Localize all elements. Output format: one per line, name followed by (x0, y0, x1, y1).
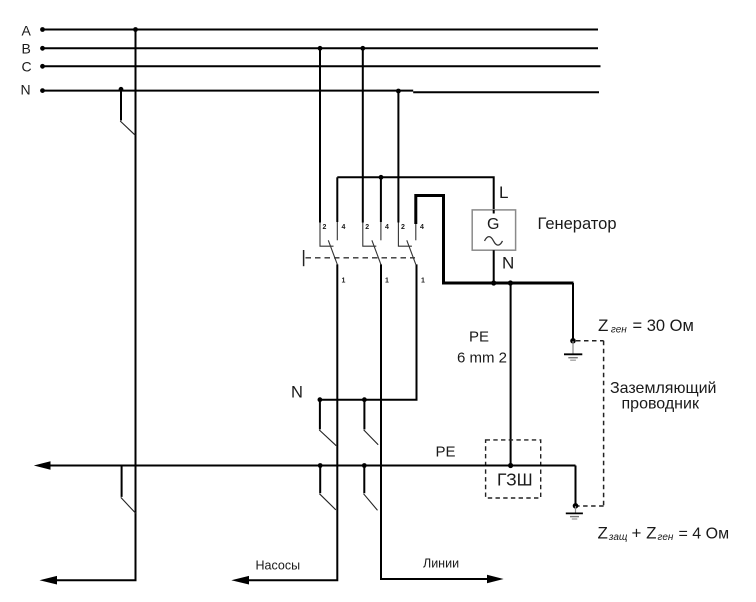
svg-text:N: N (291, 384, 303, 402)
svg-text:C: C (22, 59, 32, 75)
svg-text:2: 2 (401, 224, 405, 231)
svg-text:Насосы: Насосы (256, 558, 301, 572)
svg-text:B: B (22, 41, 31, 57)
svg-text:PE: PE (469, 329, 489, 346)
svg-text:Заземляющий: Заземляющий (610, 380, 716, 397)
svg-text:ГЗШ: ГЗШ (497, 470, 533, 490)
svg-text:1: 1 (385, 278, 389, 285)
svg-text:2: 2 (365, 224, 369, 231)
svg-text:N: N (21, 82, 31, 98)
svg-text:проводник: проводник (622, 395, 700, 412)
svg-text:1: 1 (342, 278, 346, 285)
svg-text:L: L (499, 183, 508, 202)
svg-text:PE: PE (436, 444, 456, 461)
svg-text:4: 4 (420, 224, 424, 231)
svg-text:G: G (487, 216, 499, 233)
svg-text:6 mm 2: 6 mm 2 (457, 350, 507, 367)
svg-text:4: 4 (385, 224, 389, 231)
svg-text:1: 1 (421, 278, 425, 285)
svg-text:4: 4 (342, 224, 346, 231)
svg-text:A: A (22, 23, 32, 39)
svg-text:Линии: Линии (423, 556, 459, 570)
svg-text:N: N (502, 254, 514, 273)
svg-text:Генератор: Генератор (538, 215, 617, 233)
svg-text:2: 2 (323, 224, 327, 231)
